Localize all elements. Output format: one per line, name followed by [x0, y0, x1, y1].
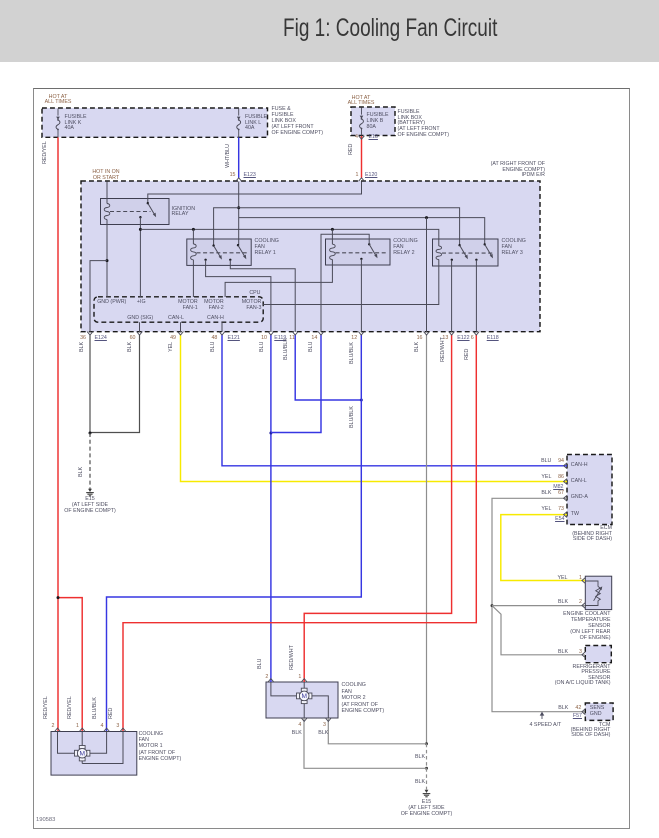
wire B+ rail 1 relay1 sw1 to relay3 sw1 — [214, 208, 460, 246]
wire RED pin 6 to motor 1 pin 3 — [123, 335, 476, 731]
pin 1 label — [339, 173, 359, 179]
ignition relay actuation line — [110, 211, 151, 213]
pin 3 refrigerant label — [566, 650, 582, 656]
label BLU pin10 — [260, 342, 266, 352]
pin 10 label — [247, 336, 267, 342]
wire motor2 right to pin 3 — [312, 696, 328, 718]
junction E123 B+ rail — [237, 206, 240, 209]
wire CPU CAN-H to pin 48 — [221, 322, 223, 332]
relay3 switch1 top contact — [458, 244, 460, 246]
ignition relay box — [101, 199, 170, 225]
wire YEL ECM TW to coolant sensor pin 1 — [501, 515, 585, 581]
connector motor1 pin 1 — [79, 728, 85, 731]
label refrigerant sensor name — [516, 665, 611, 671]
refrigerant pressure sensor box — [585, 646, 611, 663]
pin 15 label — [216, 173, 236, 179]
motor1 pin 2 label — [43, 724, 55, 730]
connector coolant sensor pin 2 — [582, 603, 585, 609]
pin 86 label — [548, 475, 564, 481]
wire motor1 pin2 internal — [58, 732, 75, 754]
label BLK on ground wire upper — [395, 755, 425, 761]
wire BLK motor2 pin4 to ground — [304, 718, 427, 768]
relay1 actuation line — [197, 252, 248, 254]
label TCM loc — [530, 728, 610, 734]
fuse & fusible link box (left) — [42, 108, 268, 137]
relay2 switch top contact — [368, 243, 370, 245]
wire junction to pin 36 E124 — [90, 261, 107, 332]
wire relay2 coil bottom to CPU MOTOR FAN-2 — [225, 260, 332, 298]
label RED/WHT pin13 — [441, 337, 447, 362]
label refrigerant sensor name 3 — [516, 676, 611, 682]
junction BLK motor2 pin3 — [425, 742, 428, 745]
connector pin 49 — [178, 332, 184, 335]
wire motor1 pin4 internal — [90, 732, 107, 754]
label TCM SENS GND — [590, 706, 604, 718]
title banner — [0, 0, 659, 62]
connector E118 pin 6 — [473, 332, 479, 335]
wire E123 down to relay 1 switch 2 — [238, 182, 240, 246]
label cooling fan motor 2 — [342, 682, 385, 715]
motor1 pin 3 label — [107, 724, 119, 730]
label CPU CAN-L — [168, 316, 184, 322]
label IPDM name — [435, 173, 545, 179]
wire RED fusible link B to E120 — [361, 136, 363, 178]
connector F57 label — [552, 714, 582, 720]
label ECM location — [532, 532, 612, 538]
label CPU MOTOR FAN-3 b — [221, 306, 261, 312]
connector E18 pin 4 — [359, 136, 365, 139]
label cooling fan relay 1 — [255, 239, 279, 257]
label cooling fan relay 3 — [502, 239, 526, 257]
label BLK GND-A — [521, 491, 551, 497]
label coolant sensor loc — [521, 630, 611, 636]
relay3 switch1 arm — [460, 245, 468, 259]
label hot in on or start 2 — [86, 176, 126, 182]
junction BLK grounds — [89, 432, 92, 435]
wire BLK ECM GND-A down — [492, 498, 585, 711]
wire relay3 sw2 out to pin 6 — [475, 260, 477, 332]
cooling fan motor 2 box — [266, 682, 338, 718]
label CPU CAN-H — [207, 316, 224, 322]
connector E122 label — [457, 336, 469, 342]
label CPU GND (SIG) — [127, 316, 153, 322]
pin 2 coolant label — [566, 600, 582, 606]
pin 48 label — [197, 336, 217, 342]
wire ignition switch out to CPU +IG — [139, 217, 141, 297]
connector E124 pin 36 — [87, 332, 93, 335]
label BLK motor2 pin3 — [318, 731, 328, 737]
wire relay1 coil bottom to CPU MOTOR FAN-1 — [192, 260, 194, 297]
label TCM loc 2 — [530, 733, 610, 739]
wire relay3 coil bottom to CPU MOTOR FAN-3 — [263, 260, 439, 305]
label RED motor1 pin3 — [109, 708, 115, 719]
connector E54 label — [535, 517, 565, 523]
label CPU MOTOR FAN-2 b — [184, 306, 224, 312]
label BLK coolant pin2 — [538, 600, 568, 606]
label ECM CAN-H — [571, 463, 588, 469]
wire E120 feed to ignition switch — [148, 182, 362, 204]
wire BLK to coolant sensor pin 2 — [492, 605, 585, 607]
label wire RED/YEL — [43, 141, 49, 164]
label RED/YEL motor1 pin2 — [44, 696, 50, 719]
motor2 pin 3 label — [314, 723, 326, 729]
label RED pin6 — [465, 348, 471, 359]
junction BLK motor2 pin4 — [425, 767, 428, 770]
pin 14 label — [297, 336, 317, 342]
label CPU MOTOR FAN-2 — [184, 300, 224, 306]
relay1 switch2 arm — [238, 245, 246, 259]
label BLU pin14 — [309, 342, 315, 352]
label cooling fan motor 1 — [139, 731, 182, 763]
label BLU motor2 pin2 — [258, 659, 264, 669]
wire B+ rail 2 to relay3 sw2 and pin16 — [239, 218, 485, 245]
connector E121 pin 48 — [219, 332, 225, 335]
label BLU/BLK pin11 — [284, 338, 290, 360]
connector E123 label — [244, 173, 256, 179]
cooling fan relay 3 box — [433, 239, 499, 266]
relay2 actuation line — [336, 252, 387, 254]
motor1 pin 1 label — [67, 724, 79, 730]
relay1 switch2 top contact — [237, 244, 239, 246]
connector motor2 pin 1 — [301, 679, 307, 682]
pin 73 label — [548, 507, 564, 513]
drawing number 190583 — [36, 818, 55, 824]
fusible link K — [56, 109, 60, 138]
label ground E15 left — [60, 497, 120, 503]
pin 6 label — [471, 336, 474, 342]
connector E123 pin 15 — [236, 178, 242, 181]
connector pin 12 — [358, 332, 364, 335]
label IPDM location — [435, 162, 545, 168]
label wire RED — [349, 143, 355, 154]
wire relay3 sw1 out to pin 13 — [451, 260, 453, 332]
label hot at all times (left) — [40, 95, 76, 101]
thermistor symbol — [585, 581, 602, 606]
label ECM TW — [571, 512, 579, 518]
label ECM name — [532, 526, 612, 532]
wire tap to relay 1 coil — [192, 229, 194, 244]
junction relay2 coil tap — [331, 228, 334, 231]
label ground E15 right — [397, 800, 457, 806]
label coolant sensor name 2 — [521, 618, 611, 624]
junction relay1 coil tap — [192, 228, 195, 231]
connector E119 label — [274, 336, 286, 342]
label BLK motor2 pin4 — [292, 731, 302, 737]
wire BLK motor2 pin3 to ground — [328, 718, 426, 744]
junction BLU/BLK pins 11/12 — [360, 399, 363, 402]
ignition switch output contact — [139, 216, 141, 218]
connector motor1 pin 2 — [55, 728, 61, 731]
connector ECM GND-A pin 67 — [564, 495, 567, 501]
wire motor1 bottom — [81, 761, 83, 764]
label ground E15 left loc2 — [53, 509, 127, 515]
ground E15 left — [86, 489, 94, 496]
wire BLK dashed segment — [426, 744, 428, 769]
label ground E15 left loc — [60, 503, 120, 509]
junction +IG rail — [139, 228, 142, 231]
wire BLU pin 48 to ECM CAN-H — [222, 335, 567, 466]
connector ECM TW pin 73 — [564, 512, 567, 518]
fusible link L — [237, 109, 241, 138]
connector E121 label — [228, 336, 240, 342]
connector motor1 pin 4 — [104, 728, 110, 731]
svg-text:M: M — [79, 751, 85, 758]
wire WHT/BLU fusible link L to E123 — [238, 137, 240, 177]
wire tap to relay 2 coil — [331, 229, 333, 244]
label BLU/BLK pin12 lower — [350, 406, 356, 428]
ignition relay switch arm — [148, 203, 156, 217]
wire BLU/BLK pin 12 to motor 1 pin 4 — [107, 335, 362, 731]
connector E122 pin 13 — [449, 332, 455, 335]
cooling fan relay 1 coil — [191, 244, 197, 260]
motor1 pin 4 label — [92, 724, 104, 730]
label ground E15 right loc — [397, 806, 457, 812]
label BLK on ground wire lower — [395, 780, 425, 786]
wire ignition coil bottom to CPU GND(PWR) — [106, 220, 108, 298]
pin 94 label — [548, 459, 564, 465]
wire BLU pin 10 to motor 2 pin 2 — [270, 335, 272, 682]
junction ignition coil / pin36 — [106, 259, 109, 262]
pin 13 label — [428, 336, 448, 342]
relay3 switch2 top contact — [484, 243, 486, 245]
label CPU MOTOR FAN-1 b — [158, 306, 198, 312]
label cooling fan relay 2 — [393, 239, 417, 257]
label BLK near ground E15 left — [79, 467, 85, 477]
motor M2 symbol — [297, 688, 312, 703]
wire pin14 feed to relay2 switch top — [321, 234, 369, 332]
ECM box — [567, 455, 612, 525]
svg-text:M: M — [301, 693, 307, 700]
label ECM CAN-L — [571, 479, 587, 485]
label coolant sensor name 3 — [521, 624, 611, 630]
wire hot-in-on to ignition relay coil — [106, 182, 108, 204]
label CPU — [231, 291, 261, 297]
connector E120 label — [365, 173, 377, 179]
motor M1 symbol — [75, 746, 90, 761]
connector refrigerant sensor pin 3 — [582, 652, 585, 658]
label YEL coolant pin1 — [538, 576, 568, 582]
cooling fan motor 1 box — [51, 732, 137, 776]
wire motor2 pin2 internal — [271, 682, 297, 696]
wire motor1 pin3 internal — [82, 732, 123, 764]
label ECM location 2 — [532, 537, 612, 543]
wire BLK pin 60 to ground junction — [90, 335, 140, 433]
wire BLK pin 36 to ground junction — [89, 335, 91, 433]
connector E118 label — [487, 336, 499, 342]
cooling fan relay 2 coil — [330, 244, 336, 259]
connector pin 16 — [424, 332, 430, 335]
label CPU MOTOR FAN-3 — [221, 300, 261, 306]
label fuse & fusible link box — [272, 107, 324, 137]
label CPU MOTOR FAN-1 — [158, 300, 198, 306]
wire BLU pin 14 join pin 10 — [271, 335, 321, 433]
ignition switch top contact — [147, 202, 149, 204]
pin 67 label — [548, 491, 564, 497]
label coolant sensor name — [521, 612, 611, 618]
label ground E15 right loc2 — [390, 812, 464, 818]
label refrigerant sensor name 2 — [516, 670, 611, 676]
CPU box — [94, 297, 263, 322]
relay2 switch arm — [369, 244, 377, 258]
junction pin 16 tap — [425, 216, 428, 219]
junction RED/YEL split — [57, 596, 60, 599]
pin 16 label — [403, 336, 423, 342]
relay1 switch2 output contact — [229, 259, 231, 261]
label BLU/BLK motor1 pin4 — [93, 697, 99, 719]
wire BLK dashed to ground — [426, 768, 428, 789]
connector ECM CAN-H pin 94 — [564, 463, 567, 469]
connector ECM CAN-L pin 86 — [564, 479, 567, 485]
pin 49 label — [156, 336, 176, 342]
cooling fan relay 1 box — [187, 239, 251, 265]
label 4 speed A/T — [530, 723, 562, 729]
label TCM name — [530, 723, 610, 729]
fusible link box battery (right) — [351, 107, 395, 136]
label CPU +IG — [137, 300, 146, 306]
label hot at all times line2 (right) — [343, 101, 379, 107]
label YEL TW — [521, 507, 551, 513]
label BLK refrigerant pin3 — [538, 650, 568, 656]
pin 4 label — [338, 135, 358, 141]
label YEL CAN-L — [521, 475, 551, 481]
fusible link B — [360, 108, 364, 136]
connector motor1 pin 3 — [120, 728, 126, 731]
label coolant sensor loc 2 — [521, 636, 611, 642]
label IPDM location 2 — [435, 168, 545, 174]
relay1 switch1 top contact — [212, 244, 214, 246]
wire relay2 switch out to pin 12 — [360, 259, 362, 332]
relay3 switch2 arm — [485, 244, 493, 258]
wire RED/WHT pin 13 to motor 2 pin 1 — [304, 335, 451, 682]
relay2 switch output contact — [360, 258, 362, 260]
connector E120 pin 1 — [359, 178, 365, 181]
connector pin 60 — [137, 332, 143, 335]
connector pin 11 — [292, 332, 298, 335]
IPDM E/R box — [81, 181, 540, 332]
label hot in on or start — [86, 170, 126, 176]
wire motor2 pin1 internal — [303, 682, 305, 688]
wire +IG rail to relay coils — [140, 229, 438, 246]
ignition relay coil — [104, 204, 110, 220]
connector E18 label — [369, 135, 378, 141]
connector coolant sensor pin 1 — [582, 578, 585, 584]
relay1 switch1 output contact — [204, 259, 206, 261]
TCM box — [585, 703, 613, 720]
pin 12 label — [337, 336, 357, 342]
label BLK pin16 — [415, 342, 421, 352]
label fusible link K — [65, 115, 87, 133]
cooling fan relay 2 box — [326, 239, 391, 265]
wire BLU/BLK pin 11 join pin 12 — [295, 335, 361, 400]
label BLU/BLK pin12 — [350, 342, 356, 364]
label YEL pin49 — [169, 342, 175, 352]
label wire WHT/BLU — [226, 144, 232, 168]
pin 60 label — [116, 336, 136, 342]
pin 42 label — [565, 706, 581, 712]
label hot at all times line 2 (left) — [40, 100, 76, 106]
engine coolant temperature sensor box — [585, 576, 611, 609]
label refrigerant sensor loc — [516, 681, 611, 687]
label CPU GND (PWR) — [97, 300, 126, 306]
motor2 pin 1 label — [289, 675, 301, 681]
label ECM GND-A — [571, 495, 588, 501]
ground E15 right — [423, 790, 431, 797]
connector motor2 pin 2 — [268, 679, 274, 682]
label fusible link box battery — [398, 110, 450, 140]
connector motor2 pin 4 — [301, 718, 307, 721]
connector motor2 pin 3 — [325, 718, 331, 721]
label fusible link B — [367, 113, 389, 131]
relay3 actuation line — [442, 252, 494, 254]
4 speed A/T arrow — [540, 712, 545, 719]
label BLK pin60 — [128, 342, 134, 352]
wire BLK dashed to ground E15 — [89, 433, 91, 489]
label ignition relay — [172, 207, 196, 219]
wire BLK splice to refrigerant sensor pin 3 — [492, 606, 585, 655]
connector E124 label — [95, 336, 107, 342]
connector TCM pin 42 — [582, 709, 585, 715]
cooling fan relay 3 coil — [436, 246, 442, 260]
wire relay1 sw1 out to pin 10 — [206, 260, 271, 332]
label BLK pin36 — [80, 342, 86, 352]
label fusible link L — [245, 115, 267, 133]
wire motor2 bottom to pin 4 — [303, 704, 305, 718]
connector pin 14 — [318, 332, 324, 335]
wire motor1 pin1 internal — [81, 732, 83, 746]
wire RED/YEL from fusible link K to motor 1 pin 2 — [57, 137, 59, 731]
label RED/YEL motor1 pin1 — [68, 696, 74, 719]
relay1 switch1 arm — [214, 246, 222, 260]
connector M82 label — [534, 485, 564, 491]
label RED/WHT motor2 pin1 — [290, 645, 296, 670]
wire relay1 sw2 out to pin 11 — [230, 260, 295, 332]
motor2 pin 4 label — [289, 723, 301, 729]
junction BLU pins 10/14 — [269, 432, 272, 435]
motor2 pin 2 label — [256, 675, 268, 681]
wire RED/YEL branch to motor 1 pin 1 — [58, 598, 82, 731]
relay3 switch2 output contact — [475, 259, 477, 261]
wire YEL pin 49 to ECM CAN-L — [181, 335, 568, 482]
pin 36 label — [66, 336, 86, 342]
wire BLK pin 16 to ground E15 — [426, 335, 428, 744]
wire CPU CAN-L to pin 49 — [180, 322, 182, 332]
title text — [283, 14, 497, 43]
wire CPU GND(SIG) to pin 60 — [139, 322, 141, 332]
label BLU CAN-H — [521, 459, 551, 465]
pin 1 coolant label — [566, 576, 582, 582]
junction GND-A splice — [491, 604, 494, 607]
label BLK TCM — [538, 706, 568, 712]
wire tap down to pin 16 — [426, 218, 428, 332]
pin 11 label — [289, 336, 295, 342]
label BLU pin48 — [211, 342, 217, 352]
relay3 switch1 output contact — [451, 259, 453, 261]
connector E119 pin 10 — [268, 332, 274, 335]
label hot at all times (right) — [343, 96, 379, 102]
